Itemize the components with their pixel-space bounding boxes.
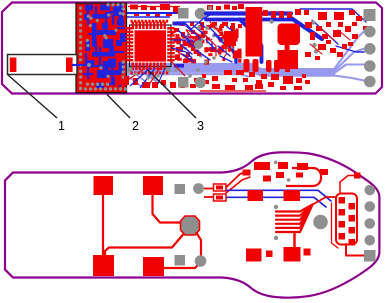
svg-text:2: 2 — [132, 119, 139, 133]
pad pair with outline (top) — [214, 184, 227, 191]
fiducial square mid top — [178, 8, 189, 19]
pad A1 (top left square) — [94, 176, 114, 195]
MCU fanout dots top — [131, 20, 169, 75]
hole column 4 — [365, 235, 376, 246]
via bottom — [195, 255, 207, 267]
edge connector hole 1 — [364, 26, 376, 38]
mounting hole mid top — [195, 8, 206, 19]
pad B1 — [248, 190, 264, 201]
hole column 3 — [365, 218, 376, 229]
corner square pad — [364, 250, 376, 262]
fiducial top — [175, 184, 186, 194]
wires under MCU — [128, 56, 216, 88]
red traces mid — [210, 22, 226, 52]
wire connector to corner pad — [346, 244, 364, 256]
board 1 outline — [2, 3, 382, 94]
IC pad right 2 — [278, 50, 299, 69]
stub below IC pad — [285, 69, 290, 73]
wire fan point to connector — [313, 197, 337, 205]
connector outline (racetrack) — [336, 194, 357, 245]
via top — [193, 183, 204, 194]
edge connector square pad — [364, 9, 376, 21]
pad B3 — [246, 249, 262, 262]
thick diagonal wire right — [291, 18, 322, 39]
USB pad right — [66, 58, 73, 73]
wire A2 to via ring — [153, 195, 181, 223]
trace along top edge — [128, 6, 180, 8]
via at module edge — [87, 63, 91, 67]
mounting hole mid bottom — [195, 77, 206, 88]
pad cluster right mid — [305, 22, 358, 60]
trace fan — [276, 205, 313, 233]
wire A1-A3 — [102, 195, 104, 255]
thermal via ring (octagon) — [181, 216, 200, 235]
U-shaped trace — [286, 168, 321, 186]
pads above thick wires — [207, 5, 237, 28]
bottom board top pad cluster — [243, 161, 329, 182]
stub between IC pads — [285, 44, 290, 51]
callout line 2 — [107, 95, 130, 119]
MCU U1 pins — [126, 22, 175, 71]
stub left of lower pad — [204, 196, 214, 198]
pad cluster top (above MCU) — [130, 4, 178, 17]
wire pads to top cluster — [226, 172, 246, 188]
center hole — [313, 215, 328, 230]
wire A4 to via — [164, 262, 201, 268]
QFN corner vias — [128, 68, 133, 73]
thin blue wires in mid cluster — [173, 13, 237, 68]
crystal / large pad — [246, 7, 263, 57]
wire pair module to mid — [127, 12, 177, 14]
wire octagon to via — [197, 233, 202, 255]
MCU U1 QFN package outline (label 3) — [130, 25, 172, 67]
wire B4 up — [293, 233, 295, 248]
vias near IC pads — [311, 20, 315, 24]
pad cluster mid (left of C bank) — [169, 25, 242, 65]
wire USB pad to module — [72, 64, 90, 66]
pad row top right — [238, 4, 368, 30]
bottom-layer diagonals under MCU — [128, 70, 166, 87]
wires right of MCU — [172, 40, 200, 48]
fiducial bottom — [175, 255, 186, 266]
MCU U1 thermal pad — [135, 30, 167, 61]
pad A3 (bottom left square) — [93, 255, 114, 276]
IC pad right 1 — [278, 24, 301, 46]
wire left of connector — [332, 203, 339, 248]
svg-text:3: 3 — [197, 119, 204, 133]
USB connector outline (label 1) — [8, 55, 78, 75]
pad B2 — [284, 190, 301, 201]
thin wires top right — [300, 9, 366, 22]
USB pad left — [10, 58, 17, 73]
pad right of B3 — [266, 251, 273, 258]
edge connector hole 2 — [364, 43, 376, 55]
fiducial square mid bottom — [178, 77, 189, 88]
edge connector hole 3 — [364, 60, 376, 72]
via small 1 — [274, 205, 278, 209]
red bars crossing bus — [244, 59, 280, 72]
wire via to pad — [204, 188, 214, 190]
wire pair (blue, bottom layer) — [227, 190, 331, 201]
via mid — [194, 40, 203, 49]
thick diagonal under crystal — [224, 36, 236, 62]
RF module MOD1 (label 2) — [76, 3, 127, 93]
thick wire from hole to mid — [206, 11, 291, 15]
module vias — [79, 3, 127, 91]
connector pads — [339, 197, 356, 246]
module copper traces (bottom layer) — [84, 4, 126, 88]
pads right of MCU column — [174, 22, 242, 63]
board 2 outline — [5, 152, 379, 297]
svg-text:1: 1 — [58, 119, 65, 133]
pad cluster bottom row — [115, 70, 310, 91]
wire top of connector — [340, 176, 356, 194]
pad top of connector — [354, 173, 361, 179]
hole column 2 — [365, 201, 376, 212]
via row mid — [197, 26, 201, 30]
callout line 3 — [148, 70, 196, 118]
capacitor C bank rect — [224, 31, 236, 46]
pad right of B4 — [304, 249, 311, 256]
via small 2 — [274, 236, 278, 240]
edge connector hole 4 — [364, 76, 376, 88]
pad A4 (bottom mid square) — [143, 257, 164, 276]
wire A3 horizontal — [105, 234, 184, 255]
pad B4 — [284, 247, 301, 262]
callout line 1 — [8, 75, 57, 118]
pad A2 (top mid square) — [143, 176, 163, 195]
bottom-layer bus (light blue band) — [128, 32, 364, 81]
hole column 1 — [365, 185, 376, 196]
